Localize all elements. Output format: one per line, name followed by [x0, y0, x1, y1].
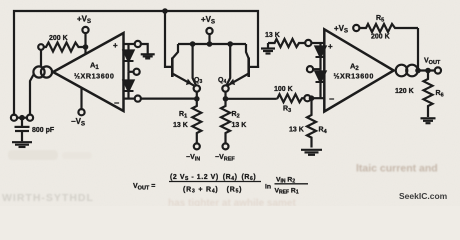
diode D4 (A2 lower) [316, 69, 326, 98]
svg-text:13 K: 13 K [232, 122, 247, 129]
wire R2 node to R3 [226, 98, 277, 100]
wire A1 output to 200K [40, 50, 42, 67]
node R1 junction dot [194, 96, 200, 102]
resistor R4 13K [307, 98, 316, 147]
svg-text:100 K: 100 K [274, 86, 293, 93]
terminal Q3 emitter [194, 85, 200, 91]
resistor 200K zigzag [44, 43, 86, 52]
wire output node [418, 69, 435, 71]
formula VOUT equation [133, 174, 308, 196]
wire R5 to output node [417, 28, 419, 71]
svg-text:VREF R1: VREF R1 [275, 188, 299, 196]
svg-text:−: − [329, 94, 334, 104]
svg-text:−: − [114, 98, 119, 108]
wire top bus from A1 output loop to Q3/Q4 bases [14, 11, 258, 115]
ground (13K A2 +) [261, 49, 275, 54]
svg-text:Q4: Q4 [218, 77, 226, 85]
wire A1 - input line [124, 97, 136, 99]
svg-text:R2: R2 [232, 111, 240, 119]
wire Q4 emitter to node [224, 92, 226, 99]
terminal Q4 emitter [222, 85, 228, 91]
wire A2 - input line [310, 97, 324, 99]
terminal A1 + input [135, 41, 141, 47]
svg-text:−VIN: −VIN [186, 154, 200, 162]
terminal -VIN [194, 143, 200, 149]
svg-text:ltaic current and: ltaic current and [356, 163, 438, 175]
node rail dots [190, 41, 233, 47]
wire A1 - input to R1 node [141, 97, 198, 99]
terminal A1 diode midpoint [129, 69, 140, 75]
resistor R5 200K [359, 24, 418, 32]
wire to ground (A1 +) [141, 44, 148, 54]
wire vertical to Q3 base [165, 11, 172, 67]
wire A2 + input line [311, 42, 324, 44]
svg-text:200 K: 200 K [49, 35, 68, 42]
terminal VOUT [435, 67, 441, 73]
node output bus terminals [11, 115, 33, 121]
transistor Q3 [172, 44, 196, 86]
resistor 13K (A2 + input) [268, 39, 305, 48]
svg-text:120 K: 120 K [395, 88, 414, 95]
svg-text:VOUT =: VOUT = [133, 183, 155, 191]
svg-text:+: + [113, 41, 118, 50]
svg-text:½XR13600: ½XR13600 [74, 72, 114, 81]
op-amp A1 triangle [53, 33, 124, 111]
svg-text:R1: R1 [179, 111, 187, 119]
svg-text:13 K: 13 K [173, 122, 188, 129]
svg-text:(R3 + R4)(R5): (R3 + R4)(R5) [183, 187, 242, 195]
svg-text:R4: R4 [319, 127, 328, 135]
diode D1 (A1 upper) [124, 44, 134, 72]
terminal A2 + input [305, 40, 311, 46]
wire Q4 base lead [249, 66, 258, 68]
svg-text:R5: R5 [376, 15, 384, 23]
svg-text:+: + [328, 42, 333, 51]
svg-text:13 K: 13 K [289, 127, 304, 134]
svg-text:½XR13600: ½XR13600 [334, 72, 374, 81]
svg-text:SeekIC.com: SeekIC.com [399, 191, 448, 201]
svg-text:ln: ln [265, 184, 271, 191]
op-amp A2 triangle [324, 29, 393, 111]
svg-text:A1: A1 [90, 61, 99, 71]
faint bleed-through text [2, 150, 438, 209]
svg-text:WIRTH-SYTHDL: WIRTH-SYTHDL [2, 192, 94, 204]
wire Q3 emitter to node [196, 92, 198, 99]
svg-text:13 K: 13 K [265, 32, 280, 39]
resistor R3 100K [277, 94, 305, 102]
svg-text:R6: R6 [436, 90, 444, 98]
terminal A2 diode midpoint [307, 66, 321, 72]
-VS terminal A1 [78, 88, 84, 115]
resistor 200K (A1 feedback) terminal circle [38, 44, 44, 50]
node output dots [415, 68, 431, 74]
capacitor 800 pF [15, 118, 30, 142]
ground (R4) [301, 150, 322, 155]
svg-text:200 K: 200 K [371, 34, 390, 41]
svg-text:+VS: +VS [201, 15, 215, 26]
transistor Q4 [227, 44, 249, 86]
svg-text:+VS: +VS [334, 24, 348, 35]
svg-text:VOUT: VOUT [424, 58, 441, 66]
node 200K/+VS junction dot [83, 44, 89, 50]
diode D2 (A1 lower) [124, 72, 134, 99]
resistor R1 13K [192, 99, 201, 144]
svg-text:800 pF: 800 pF [32, 127, 55, 134]
svg-text:A2: A2 [350, 62, 359, 72]
output current-source symbol A2 (double circle) [396, 65, 418, 77]
svg-text:has tighter at awhile samet: has tighter at awhile samet [168, 198, 296, 206]
wire A1 + input line [124, 43, 136, 45]
svg-text:−VREF: −VREF [215, 154, 235, 162]
svg-text:Q3: Q3 [194, 77, 202, 85]
+VS terminal (center) [206, 28, 212, 44]
terminal A1 - input [135, 96, 141, 102]
+VS terminal A1 [82, 27, 88, 55]
svg-text:R3: R3 [283, 106, 291, 114]
ground (A1 + input) [141, 54, 155, 58]
node R2 junction dot [223, 96, 229, 102]
resistor R6 120K [424, 71, 433, 118]
Q3 emitter arrow [187, 80, 192, 85]
node R4 junction dot [309, 95, 315, 101]
wire A1 output left drop [30, 75, 34, 115]
Q4 emitter arrow [230, 80, 235, 85]
resistor R2 13K [221, 99, 230, 144]
terminal -VREF [223, 143, 229, 149]
node A top-bus junction dot [162, 8, 168, 14]
diode D3 (A2 upper) [316, 43, 326, 69]
svg-text:+VS: +VS [77, 15, 91, 26]
terminal A2 - input [304, 95, 310, 101]
+VS rail bar (Q3/Q4 collectors) [178, 43, 246, 45]
node cap junction dot [19, 115, 25, 121]
output current-source symbol A1 (double circle) [33, 66, 52, 77]
svg-text:−VS: −VS [71, 117, 85, 128]
ground (800 pF) [12, 142, 32, 147]
ground (R6) [421, 118, 436, 123]
+VS terminal A2 [353, 25, 359, 31]
